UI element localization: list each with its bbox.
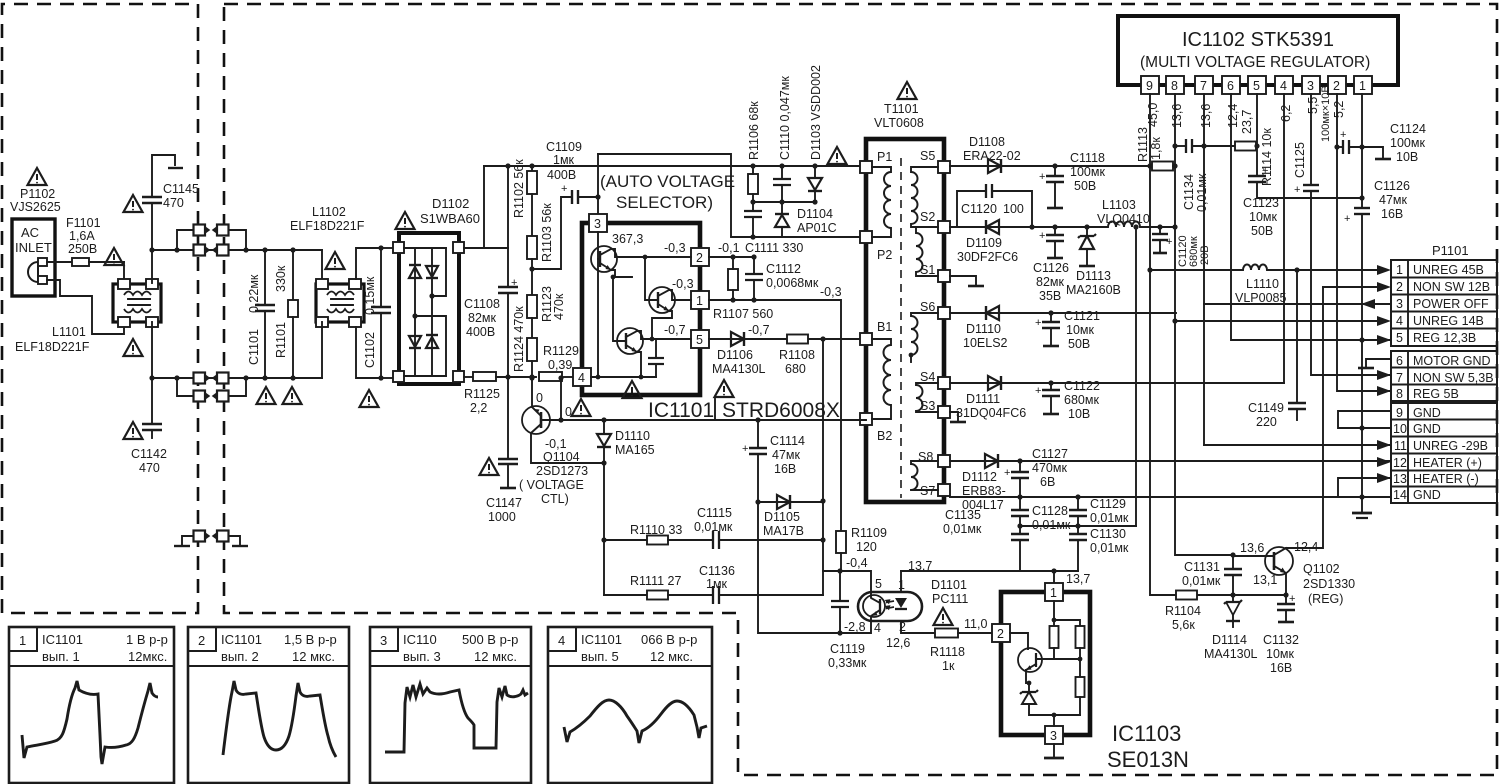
svg-text:35В: 35В <box>1039 289 1061 303</box>
svg-text:D1102: D1102 <box>432 196 469 211</box>
capacitor C1126 82mk 35V <box>1039 224 1064 258</box>
svg-text:D1108: D1108 <box>969 135 1005 149</box>
svg-text:R1124 470к: R1124 470к <box>512 306 526 372</box>
svg-text:L1103: L1103 <box>1102 198 1136 212</box>
wire S8 rail / HEATER(+) <box>950 460 1391 462</box>
svg-text:50В: 50В <box>1074 179 1096 193</box>
svg-text:-0,1: -0,1 <box>718 241 740 255</box>
svg-text:D1112: D1112 <box>962 470 997 484</box>
svg-text:50В: 50В <box>1068 337 1090 351</box>
svg-text:0,01мк: 0,01мк <box>1182 574 1221 588</box>
opto pin wires <box>900 571 902 592</box>
pin5 column with C1123 <box>1248 94 1362 198</box>
terminal S8 <box>938 455 950 467</box>
wire pin4 column <box>1283 94 1285 383</box>
svg-text:вып. 3: вып. 3 <box>403 649 441 664</box>
svg-text:GND: GND <box>1413 422 1441 436</box>
svg-text:0,01мк: 0,01мк <box>694 520 733 534</box>
svg-text:4: 4 <box>558 633 565 648</box>
C1124 100mk 10V <box>1337 129 1391 159</box>
wire from L1101 top-right up to top rail <box>151 250 153 283</box>
wire pin9 column to R1104 <box>1150 94 1176 595</box>
svg-text:1,6A: 1,6A <box>69 229 95 243</box>
svg-text:HEATER (+): HEATER (+) <box>1413 456 1482 470</box>
internal cap <box>648 339 664 377</box>
svg-text:8: 8 <box>1171 79 1178 93</box>
IC1101 thick box <box>582 223 700 395</box>
svg-text:R1111 27: R1111 27 <box>630 574 681 588</box>
svg-text:16В: 16В <box>1381 207 1403 221</box>
svg-text:82мк: 82мк <box>1036 275 1064 289</box>
svg-text:D1105: D1105 <box>764 510 800 524</box>
svg-text:B1: B1 <box>877 320 892 334</box>
svg-text:5,6к: 5,6к <box>1172 618 1195 632</box>
wire pin1 column (GND) <box>1361 94 1363 208</box>
svg-text:R1114 10к: R1114 10к <box>1260 128 1274 186</box>
svg-text:C1149: C1149 <box>1248 401 1284 415</box>
svg-text:MA4130L: MA4130L <box>1204 647 1258 661</box>
svg-text:ERA22-02: ERA22-02 <box>963 149 1021 163</box>
svg-text:2: 2 <box>1396 280 1403 294</box>
pin 2 box <box>691 248 709 266</box>
wire pin5 to B1 <box>709 338 866 340</box>
wire AC lower to L1101 <box>47 280 124 334</box>
core dashed line <box>900 158 902 498</box>
svg-text:IC1101: IC1101 <box>221 632 262 647</box>
svg-text:Q1104: Q1104 <box>543 450 580 464</box>
svg-text:9: 9 <box>1146 79 1153 93</box>
bottom rail from bridge to R1125 <box>464 376 473 378</box>
svg-text:13,6: 13,6 <box>1170 104 1184 128</box>
svg-text:066 В p-p: 066 В p-p <box>641 632 697 647</box>
svg-text:100мк: 100мк <box>1070 165 1105 179</box>
svg-text:CTL): CTL) <box>541 492 569 506</box>
svg-text:12,4: 12,4 <box>1226 104 1240 128</box>
svg-text:30DF2FC6: 30DF2FC6 <box>957 250 1018 264</box>
svg-text:F1101: F1101 <box>66 216 101 230</box>
capacitor C1147 1000 <box>498 378 518 488</box>
terminal P1 <box>860 161 872 173</box>
svg-text:12 мкс.: 12 мкс. <box>474 649 517 664</box>
resistor R1104 5,6k <box>1176 591 1197 600</box>
pin 1 box <box>1045 583 1063 601</box>
capacitor C1102 0,15mk <box>360 245 392 407</box>
svg-text:2,2: 2,2 <box>470 401 487 415</box>
svg-text:+: + <box>1294 184 1300 196</box>
svg-text:12мкс.: 12мкс. <box>128 649 167 664</box>
svg-text:2SD1273: 2SD1273 <box>536 464 588 478</box>
IC1101 designator <box>623 381 642 398</box>
svg-text:VLP0085: VLP0085 <box>1235 291 1286 305</box>
svg-text:10мк: 10мк <box>1249 210 1277 224</box>
capacitor C1108 82mk 400V <box>498 248 518 380</box>
svg-text:120: 120 <box>856 540 877 554</box>
svg-text:50В: 50В <box>1251 224 1273 238</box>
svg-text:MOTOR GND: MOTOR GND <box>1413 354 1491 368</box>
wire HEATER(-) row13 jog <box>1338 478 1391 497</box>
scope box 1 <box>9 627 174 783</box>
svg-text:R1110 33: R1110 33 <box>630 523 682 537</box>
svg-text:C1145: C1145 <box>163 182 199 196</box>
svg-text:R1118: R1118 <box>930 645 965 659</box>
svg-text:C1120: C1120 <box>961 202 997 216</box>
wire pin6 column to REG 12,3B row5 <box>1231 94 1391 340</box>
svg-text:-0,7: -0,7 <box>748 323 770 337</box>
svg-text:1 В p-p: 1 В p-p <box>126 632 168 647</box>
svg-text:D1111: D1111 <box>966 392 1000 406</box>
AC INLET box <box>12 219 55 296</box>
svg-text:1: 1 <box>696 294 703 308</box>
wire mains top rail <box>152 249 322 251</box>
svg-text:470: 470 <box>163 196 184 210</box>
svg-text:P2: P2 <box>877 248 892 262</box>
svg-text:10ELS2: 10ELS2 <box>963 336 1008 350</box>
svg-text:R1101: R1101 <box>274 322 288 358</box>
svg-text:2: 2 <box>1333 79 1340 93</box>
svg-text:680мк: 680мк <box>1064 393 1099 407</box>
terminal P2 <box>860 231 872 243</box>
scope box 2 <box>188 627 349 783</box>
svg-text:-0,3: -0,3 <box>672 277 694 291</box>
svg-text:8: 8 <box>1396 387 1403 401</box>
svg-text:13,1: 13,1 <box>1253 573 1277 587</box>
pin8 column continues down to Q1102 <box>1175 321 1233 555</box>
svg-text:NON SW 12В: NON SW 12В <box>1413 280 1490 294</box>
svg-text:1: 1 <box>1396 263 1403 277</box>
terminal S2 <box>938 221 950 233</box>
svg-text:3: 3 <box>1050 729 1057 743</box>
warning triangle P1102 <box>28 168 47 185</box>
svg-text:1мк: 1мк <box>706 577 728 591</box>
svg-text:0,01мк: 0,01мк <box>1032 518 1071 532</box>
wire pin2 column to REG 5B row8 <box>1337 94 1391 391</box>
svg-text:1мк: 1мк <box>553 153 575 167</box>
svg-text:16В: 16В <box>1270 661 1292 675</box>
svg-text:10мк: 10мк <box>1066 323 1094 337</box>
wire B with R1111 and C1136 <box>604 571 871 604</box>
terminal S3 <box>938 406 950 418</box>
C1126 47mk 16V in pin1 column <box>1344 208 1370 340</box>
svg-text:PC111: PC111 <box>932 592 968 606</box>
svg-text:470: 470 <box>139 461 160 475</box>
svg-text:500 В p-p: 500 В p-p <box>462 632 518 647</box>
S6 rail 14V: diode D1110 10ELS2 <box>950 306 1176 320</box>
svg-text:0,0068мк: 0,0068мк <box>766 276 819 290</box>
svg-text:C1124: C1124 <box>1390 122 1426 136</box>
spark gap pair lower loop <box>174 375 248 401</box>
svg-text:C1112: C1112 <box>766 262 801 276</box>
svg-text:10В: 10В <box>1068 407 1090 421</box>
svg-text:D1106: D1106 <box>717 348 753 362</box>
terminal S6 <box>938 307 950 319</box>
row numbers and labels <box>1393 263 1494 502</box>
svg-text:7: 7 <box>1396 371 1403 385</box>
svg-text:IC1102 STK5391: IC1102 STK5391 <box>1182 29 1334 51</box>
svg-text:-2,8: -2,8 <box>844 620 866 634</box>
svg-text:L1101: L1101 <box>52 325 86 339</box>
svg-text:+: + <box>1166 236 1172 248</box>
svg-text:+: + <box>1344 213 1350 225</box>
wire S4 rail <box>950 382 1284 384</box>
zener D1113 MA2160B <box>1078 224 1096 266</box>
wire B2 sense column <box>822 339 824 595</box>
svg-text:R1102 56к: R1102 56к <box>512 159 526 218</box>
wire 45V rail S5 <box>950 165 1150 167</box>
svg-text:C1134: C1134 <box>1182 174 1196 210</box>
svg-text:IC1101: IC1101 <box>581 632 622 647</box>
svg-text:+: + <box>1340 129 1346 141</box>
winding B1-B2 <box>872 339 891 419</box>
wire selector bridge to P2 <box>598 154 731 236</box>
svg-text:5: 5 <box>1253 79 1260 93</box>
svg-text:-0,3: -0,3 <box>820 285 842 299</box>
svg-text:6,2: 6,2 <box>1279 105 1293 122</box>
svg-text:45,0: 45,0 <box>1146 103 1160 127</box>
pin1 wire to B1 <box>709 300 841 531</box>
svg-text:13,6: 13,6 <box>1240 541 1264 555</box>
svg-text:-0,4: -0,4 <box>846 556 868 570</box>
svg-text:31DQ04FC6: 31DQ04FC6 <box>956 406 1026 420</box>
svg-text:S1WBA60: S1WBA60 <box>420 211 480 226</box>
IC1101 internals: transistor T2 <box>643 255 691 336</box>
S2 rail 13,6V: diode D1109 30DF2FC6 <box>950 220 1108 234</box>
svg-text:REG 12,3В: REG 12,3В <box>1413 331 1476 345</box>
terminal S4 <box>938 377 950 389</box>
IC1101 internals: transistor T1 <box>591 232 691 277</box>
spark gap pair on lower rail <box>194 373 229 384</box>
svg-text:ELF18D221F: ELF18D221F <box>15 340 90 354</box>
row1 wire with L1110 <box>1150 265 1377 273</box>
pin 3 box <box>1045 726 1063 744</box>
svg-text:VLT0608: VLT0608 <box>874 116 924 130</box>
svg-text:вып. 1: вып. 1 <box>42 649 80 664</box>
scope box 4 <box>548 627 712 783</box>
svg-text:C1142: C1142 <box>131 447 167 461</box>
svg-text:6В: 6В <box>1040 475 1055 489</box>
svg-text:2: 2 <box>696 251 703 265</box>
capacitor C1122 680mk 10V <box>1035 380 1060 414</box>
L1102 common mode choke <box>316 248 381 378</box>
svg-text:1: 1 <box>898 578 905 592</box>
svg-text:82мк: 82мк <box>468 311 496 325</box>
svg-text:MA4130L: MA4130L <box>712 362 766 376</box>
svg-text:330к: 330к <box>274 265 288 292</box>
resistor R1101 330k <box>274 247 298 380</box>
wire A with R1110 and C1115 <box>604 531 823 549</box>
wire NON SW 12B row2 <box>1323 286 1377 288</box>
C1120 100 snubber loop <box>957 184 1035 230</box>
C1134 0,01mk between pin8 and pin7 <box>1175 139 1235 153</box>
svg-text:400В: 400В <box>466 325 495 339</box>
svg-text:(REG): (REG) <box>1308 592 1343 606</box>
resistor R1107 560 <box>728 257 738 300</box>
capacitor C1119 0,33mk <box>831 571 849 636</box>
svg-text:0,39: 0,39 <box>548 358 572 372</box>
svg-text:1,5 В p-p: 1,5 В p-p <box>284 632 337 647</box>
svg-text:C1102: C1102 <box>363 332 377 368</box>
resistor chain column R1102 R1103 R1123 R1124 <box>527 163 537 379</box>
svg-text:D1101: D1101 <box>931 578 967 592</box>
svg-text:C1115: C1115 <box>697 506 732 520</box>
svg-text:47мк: 47мк <box>772 448 800 462</box>
wire feedback column <box>603 463 605 595</box>
svg-text:S2: S2 <box>920 210 935 224</box>
svg-text:4: 4 <box>1396 314 1403 328</box>
svg-text:SE013N: SE013N <box>1107 747 1189 772</box>
pin 5 box <box>691 330 709 348</box>
svg-text:12: 12 <box>1393 456 1407 470</box>
svg-text:D1104: D1104 <box>797 207 833 221</box>
pin 4 box <box>573 368 591 386</box>
svg-text:L1110: L1110 <box>1246 277 1279 291</box>
svg-text:2: 2 <box>997 627 1004 641</box>
svg-text:AC: AC <box>21 225 39 240</box>
svg-text:VLQ0410: VLQ0410 <box>1097 212 1150 226</box>
svg-text:R1106 68к: R1106 68к <box>747 101 761 160</box>
svg-text:4: 4 <box>1280 79 1287 93</box>
svg-text:C1108: C1108 <box>464 297 500 311</box>
capacitor C1121 10mk 50V <box>1035 310 1060 346</box>
svg-text:0,01мк: 0,01мк <box>1090 541 1129 555</box>
svg-text:P1: P1 <box>877 150 892 164</box>
svg-text:HEATER (-): HEATER (-) <box>1413 472 1479 486</box>
zener D1104 AP01C <box>775 202 789 237</box>
svg-text:+: + <box>1039 230 1045 242</box>
svg-text:C1136: C1136 <box>699 564 735 578</box>
svg-text:20В: 20В <box>1199 245 1211 265</box>
svg-text:13: 13 <box>1393 472 1407 486</box>
svg-text:220: 220 <box>1256 415 1277 429</box>
svg-text:1к: 1к <box>942 659 955 673</box>
primary winding P1-P2 <box>872 167 891 237</box>
svg-text:5: 5 <box>1396 331 1403 345</box>
svg-text:C1122: C1122 <box>1064 379 1100 393</box>
pin 3 box <box>589 214 607 232</box>
svg-text:SELECTOR): SELECTOR) <box>616 193 713 212</box>
svg-text:6: 6 <box>1227 79 1234 93</box>
svg-text:D1113: D1113 <box>1076 269 1111 283</box>
svg-text:L1102: L1102 <box>312 205 346 219</box>
svg-text:470мк: 470мк <box>1032 461 1067 475</box>
svg-text:12,4: 12,4 <box>1294 540 1318 554</box>
svg-text:C1114: C1114 <box>770 434 805 448</box>
svg-text:3: 3 <box>1396 297 1403 311</box>
svg-text:16В: 16В <box>774 462 796 476</box>
spark gap pair upper loop <box>174 225 248 253</box>
svg-text:UNREG 14В: UNREG 14В <box>1413 314 1484 328</box>
capacitor C1118 100mk 50V <box>1039 163 1064 208</box>
svg-text:1,8к: 1,8к <box>1149 137 1163 160</box>
svg-text:1000: 1000 <box>488 510 516 524</box>
svg-text:C1129: C1129 <box>1090 497 1126 511</box>
spark gap pair with grounds at bottom <box>174 531 248 547</box>
R1114 10k resistor <box>1235 142 1256 151</box>
wire 14V rail S6 <box>950 312 1176 314</box>
svg-text:C1126: C1126 <box>1374 179 1410 193</box>
svg-text:UNREG -29В: UNREG -29В <box>1413 439 1488 453</box>
wire DC minus rail <box>496 376 536 378</box>
svg-text:VJS2625: VJS2625 <box>10 200 61 214</box>
wire B2 winding rail <box>561 419 866 421</box>
svg-text:+: + <box>561 183 567 195</box>
resistor R1118 1k <box>935 629 958 638</box>
svg-text:0,15мк: 0,15мк <box>363 276 377 315</box>
row10/gnd column wire <box>1362 427 1391 429</box>
svg-text:R1109: R1109 <box>851 526 887 540</box>
svg-text:C1126: C1126 <box>1033 261 1069 275</box>
winding S6 with tap <box>909 313 938 362</box>
svg-text:C1121: C1121 <box>1064 309 1100 323</box>
inductor L1103 VLQ0410 <box>1108 222 1176 230</box>
svg-text:-0,7: -0,7 <box>664 323 686 337</box>
wire DC bus rail to P1 <box>484 165 866 167</box>
svg-text:R1129: R1129 <box>543 344 579 358</box>
svg-text:12,6: 12,6 <box>886 636 910 650</box>
winding S2-S1 <box>916 227 938 276</box>
diode D1103 VSDD002 <box>808 163 822 204</box>
svg-text:100мк×10В: 100мк×10В <box>1320 85 1332 142</box>
top rail dot at C1108 <box>505 163 510 168</box>
row12 wire = S8 rail (already drawn) <box>1377 460 1391 462</box>
wire 13,7 rail to IC1103 pin1 <box>901 570 1078 572</box>
svg-text:7: 7 <box>1200 79 1207 93</box>
row arrows <box>1361 265 1391 483</box>
capacitor C1120 680mk 20V (electrolytic) <box>1152 227 1172 253</box>
svg-text:MA165: MA165 <box>615 443 655 457</box>
S5 rail 45V: diode D1108 ERA22-02 <box>950 159 1150 173</box>
wire pin7 column to POWER OFF row3 <box>1204 94 1391 304</box>
IC1103 internals <box>1010 601 1085 726</box>
svg-text:GND: GND <box>1413 488 1441 502</box>
capacitor C1131 0,01mk <box>1224 555 1242 595</box>
svg-text:9: 9 <box>1396 406 1403 420</box>
svg-text:1: 1 <box>1050 586 1057 600</box>
winding S4-S3 <box>916 383 938 412</box>
svg-text:-0,1: -0,1 <box>545 437 567 451</box>
capacitor C1142 <box>142 375 162 438</box>
svg-text:(AUTO VOLTAGE: (AUTO VOLTAGE <box>600 172 735 191</box>
svg-text:5,5: 5,5 <box>1306 97 1320 114</box>
svg-text:11,0: 11,0 <box>964 617 987 631</box>
svg-text:12 мкс.: 12 мкс. <box>292 649 335 664</box>
svg-text:1: 1 <box>19 633 26 648</box>
terminal S7 <box>938 484 950 496</box>
svg-text:+: + <box>1039 171 1045 183</box>
svg-text:C1131: C1131 <box>1184 560 1220 574</box>
svg-text:NON SW 5,3В: NON SW 5,3В <box>1413 371 1494 385</box>
pin4 internal rail <box>591 376 656 378</box>
svg-text:D1114: D1114 <box>1212 633 1247 647</box>
svg-text:B2: B2 <box>877 429 892 443</box>
svg-text:UNREG 45В: UNREG 45В <box>1413 263 1484 277</box>
terminal S1 <box>938 270 950 282</box>
terminal B1 <box>860 333 872 345</box>
svg-text:AP01C: AP01C <box>797 221 837 235</box>
capacitor C1145 <box>142 155 183 253</box>
wire UNREG 14B row4 <box>1175 320 1377 322</box>
pin 1 box <box>691 291 709 309</box>
capacitor C1112 0,0068mk <box>745 257 763 300</box>
svg-text:-0,3: -0,3 <box>664 241 686 255</box>
row separators <box>1391 278 1497 487</box>
svg-text:2SD1330: 2SD1330 <box>1303 577 1355 591</box>
svg-text:S7: S7 <box>920 484 935 498</box>
svg-text:10В: 10В <box>1396 150 1418 164</box>
pin3 column with C1125 down to row7 <box>1294 94 1391 375</box>
svg-text:0,22мк: 0,22мк <box>247 274 261 313</box>
svg-text:0,01мк: 0,01мк <box>1090 511 1129 525</box>
svg-text:S5: S5 <box>920 149 935 163</box>
